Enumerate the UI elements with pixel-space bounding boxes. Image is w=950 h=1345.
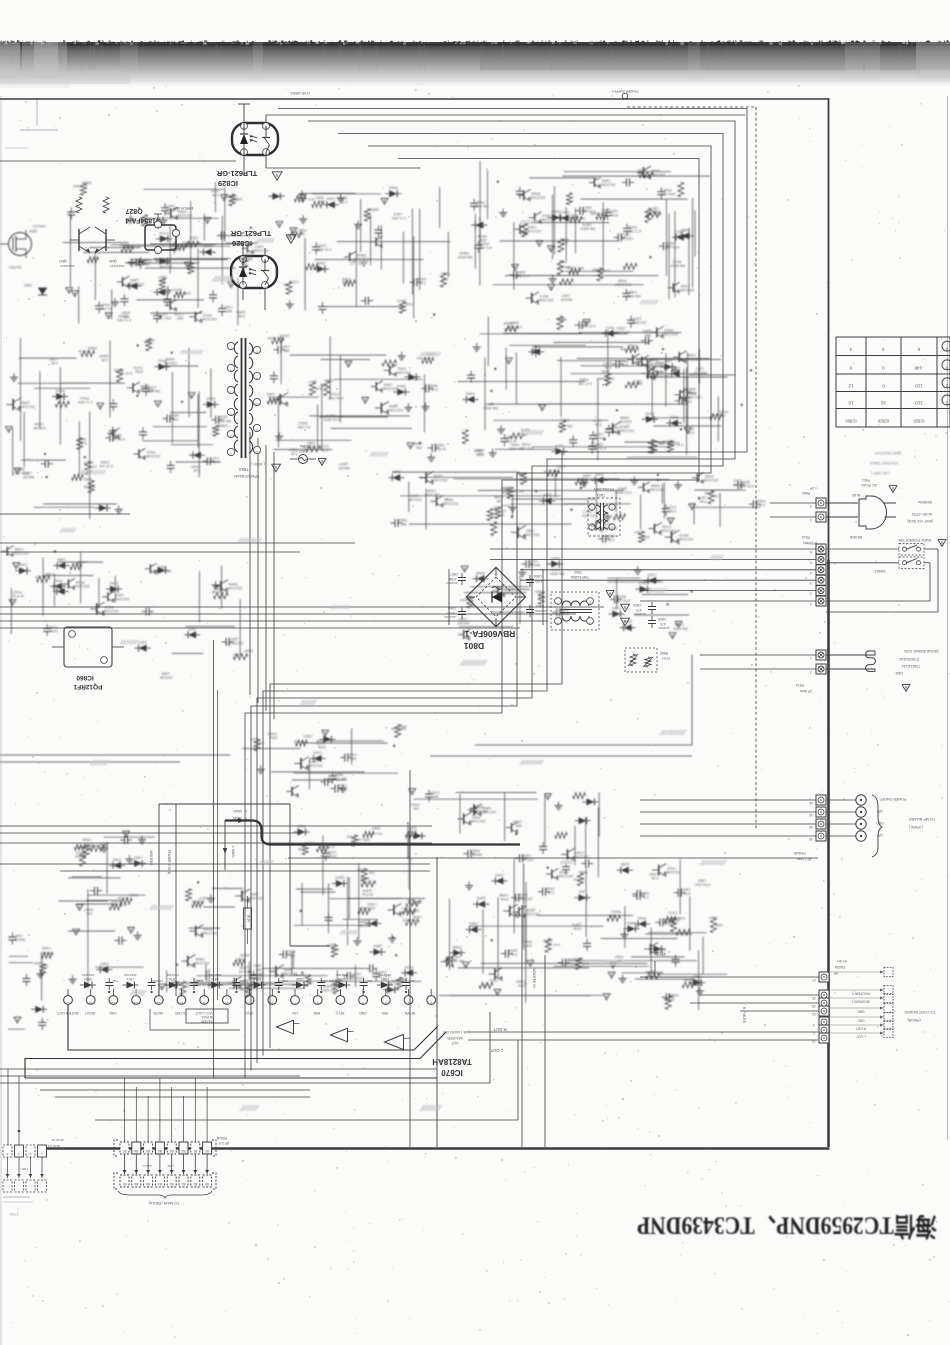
svg-text:C838: C838: [466, 392, 475, 396]
svg-text:B7: B7: [122, 1149, 126, 1153]
svg-text:25: 25: [812, 1039, 816, 1043]
svg-text:R947: R947: [84, 908, 93, 912]
svg-text:L891: L891: [266, 392, 274, 396]
svg-text:2.2k: 2.2k: [51, 361, 58, 365]
svg-text:1k P1a: 1k P1a: [506, 439, 517, 443]
svg-text:R813: R813: [105, 605, 114, 609]
svg-text:3K3V: 3K3V: [247, 915, 251, 924]
svg-text:LIVE AREA: LIVE AREA: [290, 91, 310, 95]
svg-text:FA03A: FA03A: [834, 965, 845, 969]
svg-text:D843: D843: [24, 283, 32, 287]
svg-text:2SC2168Y: 2SC2168Y: [663, 870, 681, 874]
svg-text:0.47 1W: 0.47 1W: [508, 324, 522, 328]
svg-text:4.7u 50V: 4.7u 50V: [78, 400, 93, 404]
svg-text:C808: C808: [534, 574, 542, 578]
svg-text:4700: 4700: [535, 579, 542, 583]
svg-text:2SC3668Y: 2SC3668Y: [515, 897, 533, 901]
svg-text:Q810: Q810: [84, 461, 93, 465]
svg-text:D812: D812: [305, 841, 314, 845]
svg-text:D875: D875: [323, 984, 332, 988]
svg-text:P992: P992: [476, 200, 485, 204]
svg-text:120k: 120k: [502, 490, 510, 494]
svg-text:2SC2168Y: 2SC2168Y: [522, 532, 540, 536]
svg-text:11: 11: [202, 1001, 206, 1005]
svg-text:Q867: Q867: [602, 361, 611, 365]
svg-text:B1: B1: [193, 1182, 197, 1186]
svg-text:680: 680: [561, 317, 567, 321]
svg-text:10k: 10k: [369, 871, 375, 875]
svg-text:Q817: Q817: [583, 510, 592, 514]
svg-text:220p: 220p: [692, 982, 700, 986]
svg-text:MA150: MA150: [458, 621, 469, 625]
svg-text:0: 0: [882, 365, 885, 370]
svg-text:Q838: Q838: [219, 415, 228, 419]
svg-text:R837: R837: [289, 448, 298, 452]
svg-text:B+ 8H: B+ 8H: [837, 959, 847, 963]
svg-text:C814: C814: [633, 317, 642, 321]
svg-text:8P 2.5: 8P 2.5: [219, 1141, 229, 1145]
svg-text:MA150: MA150: [529, 563, 540, 567]
svg-text:470k: 470k: [574, 927, 582, 931]
svg-text:PQ12RF1: PQ12RF1: [73, 683, 102, 690]
svg-text:GND: GND: [109, 1011, 117, 1015]
svg-text:120k: 120k: [687, 430, 695, 434]
svg-text:Q842: Q842: [543, 493, 552, 497]
svg-text:3: 3: [813, 1023, 815, 1027]
svg-text:40: 40: [809, 825, 813, 829]
svg-text:2SC2168Y: 2SC2168Y: [280, 972, 298, 976]
svg-text:R - MAIN: R - MAIN: [232, 816, 246, 820]
svg-text:2: 2: [175, 234, 177, 238]
svg-text:L823: L823: [188, 627, 196, 631]
svg-text:2SC2168Y: 2SC2168Y: [523, 912, 541, 916]
svg-text:7: 7: [294, 1001, 296, 1005]
svg-text:TS823111A1: TS823111A1: [901, 664, 920, 668]
svg-text:MA150: MA150: [14, 938, 25, 942]
svg-text:470u 25V: 470u 25V: [319, 844, 335, 848]
svg-text:R915: R915: [532, 344, 541, 348]
svg-text:L890: L890: [583, 473, 591, 477]
svg-text:18V: 18V: [876, 809, 883, 813]
svg-text:2SC2168Y: 2SC2168Y: [11, 551, 29, 555]
svg-text:Q837: Q837: [339, 462, 348, 466]
svg-text:Q825: Q825: [327, 943, 336, 947]
svg-text:680: 680: [177, 316, 183, 320]
svg-text:VCC LOUT: VCC LOUT: [195, 1011, 212, 1015]
svg-text:TLP621-GR: TLP621-GR: [230, 229, 271, 238]
svg-text:C946: C946: [603, 522, 612, 526]
svg-text:AC250V: AC250V: [534, 609, 546, 613]
svg-text:( IP60A ): ( IP60A ): [909, 825, 923, 829]
svg-text:AC250V: AC250V: [445, 581, 457, 585]
svg-text:470u 25V: 470u 25V: [695, 882, 711, 886]
svg-text:470k: 470k: [409, 829, 417, 833]
svg-text:P987: P987: [614, 954, 623, 958]
svg-text:L851: L851: [578, 890, 586, 894]
svg-text:C857: C857: [708, 916, 717, 920]
svg-text:POWER B GND: POWER B GND: [167, 850, 171, 875]
svg-text:1SS148: 1SS148: [294, 740, 307, 744]
svg-text:P963: P963: [411, 802, 420, 806]
svg-text:R813: R813: [640, 891, 649, 895]
svg-text:3.3k: 3.3k: [298, 232, 305, 236]
svg-text:2SC2168Y: 2SC2168Y: [536, 298, 554, 302]
svg-text:2SC2168Y: 2SC2168Y: [701, 478, 719, 482]
svg-text:( 400V ): ( 400V ): [251, 462, 265, 466]
svg-text:C842: C842: [495, 873, 504, 877]
svg-text:L862: L862: [253, 963, 261, 967]
svg-text:C883: C883: [516, 980, 525, 984]
svg-text:R897: R897: [244, 648, 253, 652]
svg-text:C890: C890: [348, 753, 357, 757]
svg-text:P997: P997: [471, 815, 480, 819]
svg-text:1SS148: 1SS148: [34, 426, 47, 430]
svg-text:220p: 220p: [329, 854, 337, 858]
svg-text:B6: B6: [134, 1149, 138, 1153]
svg-text:R957: R957: [315, 196, 324, 200]
svg-text:0.47 1W: 0.47 1W: [490, 513, 504, 517]
svg-text:680: 680: [256, 967, 262, 971]
svg-text:Q862: Q862: [29, 229, 37, 233]
svg-text:B0: B0: [205, 1149, 209, 1153]
svg-text:Q891: Q891: [236, 310, 245, 314]
svg-text:R971: R971: [539, 294, 548, 298]
svg-text:C809: C809: [658, 617, 666, 621]
svg-text:P957: P957: [100, 962, 109, 966]
svg-text:R816: R816: [664, 328, 673, 332]
svg-text:39k 600V: 39k 600V: [580, 227, 596, 231]
svg-text:4.7u 50V: 4.7u 50V: [626, 229, 641, 233]
svg-text:C803: C803: [633, 603, 641, 607]
svg-text:47u 25V: 47u 25V: [300, 197, 314, 201]
svg-text:0.47 1W: 0.47 1W: [332, 983, 346, 987]
svg-text:1: 1: [945, 401, 948, 406]
svg-text:R846: R846: [560, 237, 569, 241]
svg-text:R972: R972: [672, 260, 681, 264]
svg-text:2.2k: 2.2k: [441, 277, 448, 281]
svg-text:1: 1: [810, 518, 812, 522]
svg-text:D813: D813: [560, 210, 569, 214]
svg-text:Q820: Q820: [477, 896, 486, 900]
svg-text:P801B: P801B: [216, 1136, 227, 1140]
svg-text:B3: B3: [170, 1149, 174, 1153]
svg-text:10k: 10k: [609, 913, 615, 917]
svg-text:110: 110: [915, 383, 923, 388]
svg-text:2: 2: [589, 601, 591, 605]
svg-text:R851: R851: [83, 477, 92, 481]
svg-text:C971: C971: [320, 444, 329, 448]
svg-text:D833: D833: [551, 210, 560, 214]
svg-text:33k 1/2W: 33k 1/2W: [570, 216, 586, 220]
svg-text:D875: D875: [326, 414, 335, 418]
svg-text:120k: 120k: [235, 197, 243, 201]
svg-text:Q895: Q895: [704, 491, 713, 495]
svg-text:3: 3: [849, 347, 852, 352]
svg-text:T801: T801: [597, 493, 605, 497]
svg-text:C888: C888: [499, 893, 508, 897]
svg-text:B5: B5: [146, 1182, 150, 1186]
svg-text:R936: R936: [628, 343, 637, 347]
svg-text:R811: R811: [676, 229, 685, 233]
svg-text:L892: L892: [161, 672, 169, 676]
svg-text:L841: L841: [318, 243, 326, 247]
svg-text:C849: C849: [383, 383, 392, 387]
svg-text:D818: D818: [417, 277, 426, 281]
svg-text:2SC3668Y: 2SC3668Y: [225, 641, 243, 645]
svg-text:R966: R966: [476, 571, 485, 575]
svg-text:P993: P993: [54, 578, 63, 582]
svg-text:B7: B7: [122, 1182, 126, 1186]
svg-text:IN PULL: IN PULL: [201, 1015, 213, 1019]
svg-text:50/60Hz: 50/60Hz: [918, 500, 932, 504]
svg-text:( AB. ) AUDIO OUT: ( AB. ) AUDIO OUT: [442, 1030, 469, 1034]
svg-text:P812: P812: [802, 535, 810, 539]
svg-text:39k 600V: 39k 600V: [237, 257, 253, 261]
svg-text:5.6k: 5.6k: [112, 979, 118, 983]
svg-text:C819: C819: [616, 326, 625, 330]
svg-text:2SC2168Y: 2SC2168Y: [677, 288, 695, 292]
svg-text:C928: C928: [327, 850, 336, 854]
svg-text:+18V: +18V: [167, 1164, 174, 1168]
svg-text:33k 1/2W: 33k 1/2W: [557, 424, 573, 428]
svg-text:1SS148: 1SS148: [303, 445, 316, 449]
svg-text:15: 15: [111, 1001, 115, 1005]
svg-text:42: 42: [809, 813, 813, 817]
svg-text:C846: C846: [82, 838, 91, 842]
svg-text:Q840: Q840: [99, 354, 108, 358]
svg-text:C990: C990: [362, 889, 371, 893]
svg-text:4.7u 50V: 4.7u 50V: [514, 274, 529, 278]
svg-text:5: 5: [339, 1001, 341, 1005]
svg-text:C936: C936: [494, 495, 503, 499]
svg-text:39k 600V: 39k 600V: [482, 406, 498, 410]
svg-text:D855: D855: [687, 387, 696, 391]
svg-text:1: 1: [230, 390, 232, 394]
svg-text:LIN: LIN: [292, 1011, 298, 1015]
svg-text:IC829: IC829: [218, 179, 238, 188]
svg-text:P960: P960: [618, 278, 627, 282]
svg-text:Q855: Q855: [359, 920, 368, 924]
svg-text:1SS148: 1SS148: [565, 962, 578, 966]
svg-text:GND: GND: [359, 1011, 367, 1015]
svg-text:2: 2: [407, 1001, 409, 1005]
svg-text:680: 680: [75, 562, 81, 566]
svg-text:L854: L854: [250, 892, 258, 896]
svg-text:120k: 120k: [144, 340, 152, 344]
svg-text:2SC2168Y: 2SC2168Y: [502, 591, 520, 595]
svg-text:Q829: Q829: [316, 741, 325, 745]
svg-text:SW812: SW812: [874, 569, 885, 573]
svg-text:2SC2168Y: 2SC2168Y: [200, 931, 218, 935]
svg-text:2SC2168Y: 2SC2168Y: [305, 764, 323, 768]
svg-text:D827: D827: [583, 206, 592, 210]
svg-text:680: 680: [124, 314, 130, 318]
svg-text:2P: 2P: [810, 486, 814, 490]
svg-text:R988: R988: [651, 483, 660, 487]
svg-text:L858: L858: [21, 401, 29, 405]
svg-text:12: 12: [848, 383, 854, 388]
svg-text:P813: P813: [796, 683, 804, 687]
svg-text:3.3k: 3.3k: [604, 365, 611, 369]
svg-text:2SC2168Y: 2SC2168Y: [440, 501, 458, 505]
svg-text:120k: 120k: [50, 629, 58, 633]
svg-text:C952: C952: [110, 581, 119, 585]
svg-text:3: 3: [810, 581, 812, 585]
svg-text:470u 25V: 470u 25V: [13, 471, 29, 475]
svg-text:Q861: Q861: [642, 329, 651, 333]
svg-text:TLP621-GR: TLP621-GR: [216, 169, 257, 178]
svg-text:5.6k: 5.6k: [212, 426, 219, 430]
svg-text:10k: 10k: [562, 241, 568, 245]
svg-text:Q831: Q831: [373, 944, 382, 948]
svg-text:100u 16V: 100u 16V: [175, 291, 191, 295]
svg-text:L889: L889: [130, 278, 138, 282]
svg-text:P981: P981: [286, 950, 295, 954]
svg-text:D833: D833: [685, 426, 694, 430]
svg-text:MA150: MA150: [359, 924, 370, 928]
svg-text:Q815: Q815: [335, 876, 344, 880]
svg-text:IC670: IC670: [441, 1068, 463, 1077]
svg-text:680: 680: [283, 283, 289, 287]
svg-text:C915: C915: [513, 820, 522, 824]
svg-text:0: 0: [917, 347, 920, 352]
svg-text:33k 1/2W: 33k 1/2W: [473, 204, 488, 208]
svg-text:1SS179A: 1SS179A: [166, 973, 179, 977]
svg-text:3.3k: 3.3k: [101, 358, 108, 362]
svg-text:R849: R849: [165, 357, 174, 361]
svg-text:470u 25V: 470u 25V: [664, 245, 680, 249]
svg-text:Q833: Q833: [618, 487, 627, 491]
svg-text:C999: C999: [100, 460, 109, 464]
svg-text:1SS148: 1SS148: [164, 361, 177, 365]
svg-text:10: 10: [881, 401, 887, 406]
svg-text:P926: P926: [76, 580, 85, 584]
svg-text:Q889: Q889: [592, 267, 601, 271]
svg-text:R843: R843: [551, 556, 560, 560]
svg-text:R964: R964: [579, 377, 588, 381]
svg-text:C981: C981: [224, 305, 233, 309]
svg-text:Q878: Q878: [309, 760, 318, 764]
svg-text:4700: 4700: [447, 611, 454, 615]
svg-text:D822: D822: [88, 346, 97, 350]
svg-text:3: 3: [810, 504, 812, 508]
svg-text:WOOFER(-): WOOFER(-): [852, 1000, 870, 1004]
svg-text:TO MP BOARD: TO MP BOARD: [909, 817, 936, 821]
svg-text:1: 1: [810, 656, 812, 660]
svg-text:100u 16V: 100u 16V: [645, 213, 661, 217]
svg-text:P976: P976: [646, 411, 655, 415]
svg-text:L827: L827: [557, 465, 565, 469]
svg-text:C837: C837: [392, 470, 401, 474]
svg-text:L894: L894: [134, 855, 142, 859]
svg-text:39k 600V: 39k 600V: [625, 294, 640, 298]
svg-text:2SC2168Y: 2SC2168Y: [72, 584, 90, 588]
svg-text:120k: 120k: [194, 242, 202, 246]
svg-text:Q877: Q877: [308, 380, 317, 384]
svg-text:C835: C835: [15, 547, 24, 551]
svg-text:33k 1/2W: 33k 1/2W: [424, 492, 440, 496]
svg-text:0.01 600V: 0.01 600V: [267, 336, 284, 340]
svg-text:1SS148: 1SS148: [212, 590, 225, 594]
svg-text:47u 25V: 47u 25V: [581, 514, 595, 518]
svg-text:P952: P952: [298, 193, 307, 197]
svg-text:47u 25V: 47u 25V: [693, 371, 707, 375]
svg-text:L826: L826: [638, 168, 646, 172]
svg-text:4: 4: [557, 621, 559, 625]
svg-text:47u 25V: 47u 25V: [99, 306, 113, 310]
svg-text:10k: 10k: [413, 806, 419, 810]
svg-text:L841: L841: [733, 479, 741, 483]
svg-text:C841: C841: [523, 853, 532, 857]
svg-text:9: 9: [249, 1001, 251, 1005]
svg-text:C975: C975: [552, 568, 561, 572]
svg-text:2SC2168Y: 2SC2168Y: [192, 961, 210, 965]
svg-text:R897: R897: [510, 320, 519, 324]
svg-text:Q827: Q827: [229, 637, 238, 641]
svg-text:L887: L887: [664, 359, 672, 363]
svg-text:L868: L868: [57, 558, 65, 562]
svg-text:2SA1015Y: 2SA1015Y: [110, 264, 125, 268]
svg-text:C977: C977: [210, 456, 219, 460]
svg-text:6P: 6P: [834, 971, 838, 975]
svg-text:P965: P965: [536, 590, 545, 594]
svg-text:P992: P992: [511, 443, 520, 447]
svg-text:R855: R855: [429, 383, 438, 387]
svg-text:680: 680: [401, 522, 407, 526]
svg-text:L815: L815: [501, 486, 509, 490]
svg-text:D898: D898: [360, 876, 369, 880]
svg-text:1k P1a: 1k P1a: [638, 172, 649, 176]
svg-text:D887: D887: [565, 958, 574, 962]
svg-text:5.6k: 5.6k: [518, 984, 525, 988]
svg-text:0.47 1W: 0.47 1W: [405, 908, 419, 912]
svg-text:1k P1a: 1k P1a: [411, 899, 422, 903]
svg-text:Q855: Q855: [324, 379, 333, 383]
svg-text:120k: 120k: [482, 983, 490, 987]
svg-text:C840: C840: [687, 353, 696, 357]
svg-text:IC829: IC829: [877, 418, 889, 423]
svg-text:D822: D822: [756, 499, 765, 503]
svg-text:BROWN: BROWN: [849, 535, 862, 539]
svg-text:1SS148: 1SS148: [160, 264, 173, 268]
svg-text:POWER SUPPLY: POWER SUPPLY: [611, 89, 639, 93]
svg-text:680: 680: [660, 953, 666, 957]
svg-text:1SS148: 1SS148: [160, 676, 173, 680]
svg-text:10k: 10k: [258, 741, 264, 745]
svg-text:2SC2168Y: 2SC2168Y: [478, 810, 496, 814]
svg-text:10k: 10k: [416, 446, 422, 450]
svg-text:C881: C881: [469, 922, 478, 926]
svg-text:4: 4: [362, 1001, 364, 1005]
svg-text:P936: P936: [546, 887, 555, 891]
svg-text:1: 1: [430, 1001, 432, 1005]
svg-text:C972: C972: [668, 910, 677, 914]
svg-text:11: 11: [255, 450, 259, 454]
svg-text:6P(White): 6P(White): [803, 541, 817, 545]
svg-text:2SC2168Y: 2SC2168Y: [101, 609, 119, 613]
svg-text:D882: D882: [669, 993, 678, 997]
svg-text:TA8218AH: TA8218AH: [432, 1057, 472, 1066]
svg-text:R875: R875: [226, 194, 235, 198]
svg-text:C970: C970: [134, 365, 143, 369]
svg-text:B3: B3: [170, 1182, 174, 1186]
svg-text:1SS148: 1SS148: [409, 497, 422, 501]
svg-text:3.3k: 3.3k: [595, 423, 602, 427]
svg-text:5: 5: [230, 434, 232, 438]
svg-text:39k 600V: 39k 600V: [670, 264, 686, 268]
svg-text:C998: C998: [178, 209, 187, 213]
svg-text:C833: C833: [326, 197, 335, 201]
